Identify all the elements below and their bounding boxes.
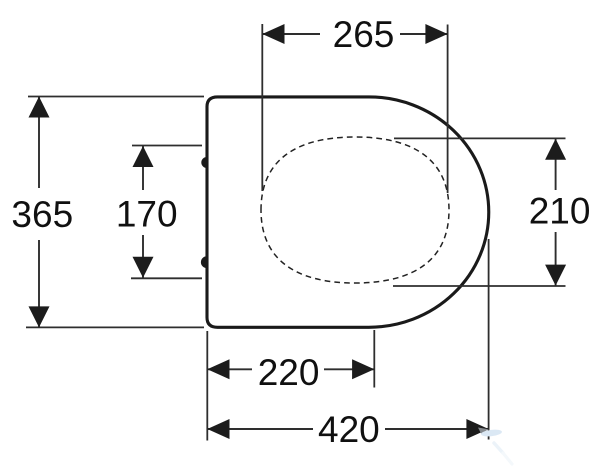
dim 220 arrow left: [207, 359, 229, 379]
dim 265 label background: [320, 16, 400, 53]
svg-text:220: 220: [258, 352, 320, 393]
dim 365 arrow down: [29, 306, 50, 327]
dim 420 arrow left: [207, 419, 229, 439]
dim 365 extension line top: [28, 96, 204, 98]
svg-text:170: 170: [116, 194, 178, 235]
dim 365 arrow up: [29, 97, 50, 118]
dim 170 extension line bottom: [131, 277, 202, 279]
dim 170 arrow down: [133, 257, 154, 278]
dim 265 extension line left: [261, 24, 263, 191]
dim 170 arrow up: [133, 146, 154, 167]
dim 420 dimension line: [207, 428, 488, 430]
dim 265 dimension line: [262, 33, 447, 35]
watermark faint streak tail: [503, 453, 512, 464]
seat opening dashed oval: [261, 137, 449, 283]
dim 365 label background: [8, 188, 77, 240]
svg-text:210: 210: [529, 190, 591, 231]
dim 210 arrow down: [545, 265, 566, 286]
svg-text:265: 265: [333, 14, 395, 55]
hinge bump lower: [201, 256, 207, 268]
dim 210 arrow up: [545, 139, 566, 160]
dim 420 extension line right: [488, 239, 490, 440]
dim 210 extension line bottom: [393, 285, 566, 287]
dim 365 dimension line: [38, 97, 40, 328]
dim 170 extension line top: [132, 145, 202, 147]
dim 170 label background: [113, 190, 181, 235]
dim 210 label background: [527, 190, 595, 232]
dim 210 extension line top: [394, 137, 566, 139]
dim 265 arrow right: [425, 24, 447, 44]
dim 220 dimension line: [207, 368, 374, 370]
dim 365 extension line bottom: [26, 326, 204, 328]
svg-text:420: 420: [318, 409, 380, 450]
dim 265 arrow left: [262, 24, 284, 44]
watermark faint streak: [494, 443, 503, 453]
dim 170 dimension line: [142, 146, 144, 279]
watermark gray wedge: [478, 428, 489, 434]
hinge bump upper: [201, 157, 206, 168]
svg-text:365: 365: [11, 194, 73, 235]
watermark blue blob: [481, 429, 503, 438]
dim 420 arrow right: [466, 419, 488, 439]
dim 220 label background: [252, 352, 324, 388]
dim 420 label background: [313, 410, 385, 447]
dim 220-420 shared left extension line: [206, 331, 208, 441]
seat outline: [207, 97, 489, 327]
dim 220 extension line right: [373, 330, 375, 388]
dim 210 dimension line: [555, 138, 557, 286]
dim 265 extension line right: [447, 25, 449, 194]
dim 220 arrow right: [352, 359, 374, 379]
